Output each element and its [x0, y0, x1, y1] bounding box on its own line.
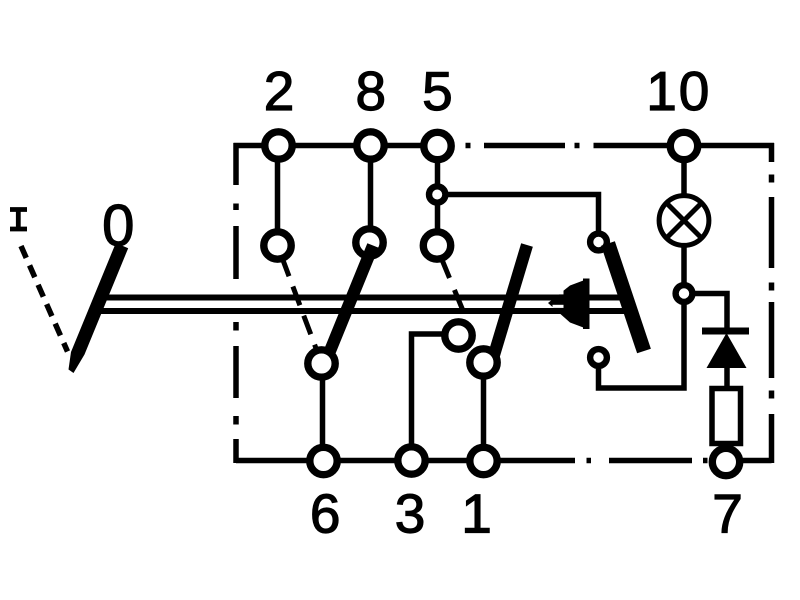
diode V1	[702, 331, 749, 368]
contact under 2	[264, 232, 291, 259]
wire terminal2 to contact	[275, 146, 281, 246]
label I	[10, 209, 27, 230]
wire pole right to terminal1	[481, 363, 487, 462]
actuation direction arrow	[548, 279, 590, 330]
wire lamp node to relay contact	[599, 294, 685, 389]
terminal 6	[310, 447, 337, 474]
housing outline dash-dot border	[234, 143, 775, 463]
terminal 2	[265, 132, 292, 159]
wire terminal8 to contact	[368, 146, 374, 243]
label 10	[646, 60, 709, 122]
svg-text:1: 1	[646, 60, 677, 122]
switch arm right (1)	[494, 245, 527, 355]
relay switch arm	[608, 244, 644, 352]
svg-text:2: 2	[264, 60, 295, 122]
actuator double line	[100, 295, 628, 301]
pole contact left	[308, 350, 335, 377]
svg-text:3: 3	[395, 483, 426, 545]
terminal 1	[470, 447, 497, 474]
lamp lower node	[676, 285, 693, 302]
wire terminal10 to lamp	[681, 146, 687, 294]
terminal 7	[712, 448, 739, 475]
dashed line contact5 open position	[442, 259, 467, 319]
lamp L1	[659, 196, 709, 246]
wire pole left to terminal6	[320, 364, 326, 462]
svg-text:0: 0	[102, 194, 134, 259]
terminal 5	[424, 132, 451, 159]
dashed line contact2 open position	[282, 258, 317, 352]
svg-text:5: 5	[422, 60, 453, 122]
pole contact right	[470, 349, 497, 376]
switch arm left (8-6 closed)	[330, 246, 373, 352]
wire lamp node to diode	[684, 294, 727, 333]
node junction 5	[429, 186, 445, 202]
svg-text:0: 0	[679, 60, 710, 122]
terminal 10	[670, 132, 697, 159]
wire terminal5 to contact	[435, 146, 441, 246]
resistor R1	[712, 389, 741, 444]
wire resistor to terminal7	[723, 444, 729, 462]
wire terminal3 to contact node	[412, 334, 451, 461]
svg-text:7: 7	[712, 483, 743, 545]
contact under 8	[356, 229, 383, 256]
svg-text:8: 8	[356, 60, 387, 122]
lever position 0 (wedge)	[69, 243, 129, 373]
svg-text:6: 6	[310, 483, 341, 545]
wire node5 to relay pivot	[438, 195, 599, 243]
terminal 3	[398, 447, 425, 474]
relay lower contact node	[590, 349, 607, 366]
contact under 5	[423, 232, 450, 259]
svg-text:1: 1	[461, 483, 492, 545]
dashed line lever position I	[21, 246, 68, 352]
relay pivot node	[590, 234, 607, 251]
wire diode to resistor	[724, 366, 730, 391]
terminal 8	[357, 132, 384, 159]
contact node 3	[445, 322, 472, 349]
